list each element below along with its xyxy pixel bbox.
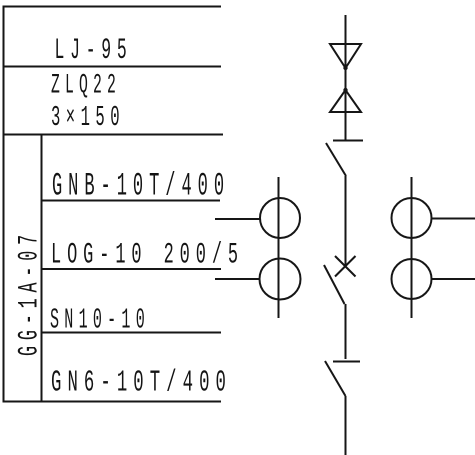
rule below LQG row — [41, 268, 221, 270]
wire: left CT primary conductor — [278, 177, 280, 318]
disconnect GN6-10T/400 blade — [325, 361, 346, 396]
table top rule — [3, 6, 222, 8]
wire: stub to TA1 upper — [215, 218, 260, 220]
svg-text:GN6-10T/400: GN6-10T/400 — [51, 366, 232, 401]
svg-text:SN10-10: SN10-10 — [50, 304, 150, 337]
disconnect GN6-10T/400 fixed contact bar — [333, 361, 360, 363]
disconnect GNB-10T/400 blade — [326, 143, 346, 176]
wire: right CT primary conductor — [411, 177, 413, 318]
junction dot upper apex — [343, 66, 347, 70]
svg-text:LOG-10 200/5: LOG-10 200/5 — [51, 239, 244, 273]
breaker SN10-10 contact cross stroke 2 — [335, 256, 356, 277]
svg-text:ZLQ22: ZLQ22 — [51, 71, 121, 102]
wire: between disconnect and breaker — [345, 176, 347, 266]
table bottom rule — [3, 401, 222, 403]
wire: stub to TA1 lower — [215, 278, 260, 280]
current transformer TA2 upper winding — [392, 198, 432, 238]
rule below GNB row — [41, 200, 220, 202]
wire: stub from TA2 lower — [432, 278, 475, 280]
svg-text:LJ-95: LJ-95 — [55, 34, 133, 68]
arrester FV upper triangle — [330, 44, 361, 68]
wire: outgoing feeder at bottom — [345, 396, 347, 455]
wire: between breaker and lower disconnect — [345, 304, 347, 359]
disconnect GNB-10T/400 fixed contact bar — [333, 140, 363, 142]
svg-text:3×150: 3×150 — [51, 101, 125, 134]
current transformer TA1 upper winding — [260, 198, 300, 238]
current transformer TA1 lower winding — [260, 259, 301, 300]
current transformer TA2 lower winding — [392, 259, 432, 299]
wire: incoming line at top — [345, 15, 347, 140]
svg-text:GG-1A-07: GG-1A-07 — [15, 229, 46, 356]
table inner vertical rule — [41, 134, 43, 402]
rule below SN10 row — [41, 332, 221, 334]
wire: stub from TA2 upper — [432, 218, 475, 220]
rule below cable row — [3, 134, 224, 136]
breaker SN10-10 blade — [324, 265, 345, 304]
breaker SN10-10 contact cross stroke 1 — [335, 256, 356, 277]
rule below LJ-95 row — [3, 66, 222, 68]
junction dot lower apex — [343, 88, 347, 92]
svg-text:GNB-10T/400: GNB-10T/400 — [52, 168, 230, 205]
arrester FV lower triangle — [330, 90, 361, 112]
table left border (cabinet outline) — [3, 6, 5, 402]
